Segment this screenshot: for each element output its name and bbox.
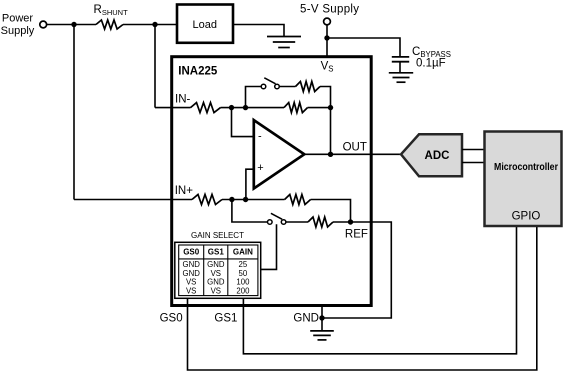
svg-text:GAIN: GAIN [233, 247, 253, 256]
node GND [319, 315, 324, 320]
svg-text:200: 200 [236, 286, 250, 295]
wire GS0 to GPIO [188, 226, 537, 370]
svg-text:ADC: ADC [425, 150, 450, 162]
svg-text:Load: Load [193, 19, 217, 31]
svg-text:Supply: Supply [1, 25, 35, 37]
switch S1 [261, 84, 266, 89]
node IN+ b [243, 197, 248, 202]
wire feedback to output node [330, 108, 332, 155]
node IN- b [243, 105, 248, 110]
IC INA225 box [172, 57, 372, 306]
svg-text:GND: GND [207, 278, 225, 287]
svg-text:VS: VS [186, 286, 196, 295]
wire load to ground [233, 25, 284, 37]
svg-text:GND: GND [183, 260, 201, 269]
svg-text:GS0: GS0 [183, 247, 200, 256]
wire output [304, 153, 401, 155]
svg-text:OUT: OUT [343, 141, 367, 153]
svg-text:GS1: GS1 [208, 247, 225, 256]
wire IN- rail [155, 107, 191, 109]
op-amp U1 [254, 120, 304, 188]
wire node B down to IN- rail [154, 25, 156, 108]
node IN+ a [229, 197, 234, 202]
svg-text:GND: GND [183, 269, 201, 278]
svg-text:Power: Power [2, 12, 34, 24]
resistor RSHUNT [96, 20, 123, 29]
wire ref switch branch [232, 200, 268, 223]
capacitor CBYPASS [392, 56, 409, 58]
resistor ref lower [308, 217, 333, 227]
resistor ref upper [285, 195, 311, 205]
terminal: 5-V supply [324, 18, 331, 25]
wire IN+ rail [74, 199, 192, 201]
resistor feedback lower [284, 103, 308, 113]
svg-text:Microcontroller: Microcontroller [494, 162, 558, 173]
resistor input IN- [191, 103, 221, 113]
svg-text:GS0: GS0 [160, 312, 183, 324]
wire VS pin [326, 25, 328, 57]
svg-text:-: - [258, 131, 262, 143]
svg-text:IN-: IN- [175, 94, 191, 106]
ADC block [401, 134, 462, 176]
wire node A down to IN+ rail [73, 25, 75, 200]
wire switch to feedback resistor [279, 86, 295, 88]
svg-text:IN+: IN+ [175, 185, 194, 197]
ground (bypass cap) [389, 72, 413, 74]
svg-text:REF: REF [345, 229, 368, 241]
ground (load) [267, 36, 301, 38]
resistor feedback upper [296, 82, 321, 92]
node VS junction [324, 35, 329, 40]
svg-text:VS: VS [211, 269, 221, 278]
svg-text:GS1: GS1 [214, 312, 237, 324]
node feedback junction [328, 105, 333, 110]
svg-text:INA225: INA225 [178, 66, 218, 78]
node B (shunt/load junction) [152, 22, 157, 27]
wire GND pin [321, 306, 323, 319]
node REF [348, 219, 353, 224]
wire power supply rail [47, 24, 96, 26]
svg-text:GPIO: GPIO [512, 211, 541, 223]
svg-text:GND: GND [207, 260, 225, 269]
svg-text:VS: VS [321, 61, 334, 74]
node A (supply junction) [71, 22, 76, 27]
node IN- a [229, 105, 234, 110]
svg-text:100: 100 [236, 278, 250, 287]
switch S2 [268, 220, 273, 225]
wire inverting input [232, 108, 254, 137]
load block [177, 5, 233, 43]
wire switch control from gain select [260, 224, 277, 269]
svg-text:+: + [257, 162, 263, 174]
svg-text:GAIN SELECT: GAIN SELECT [191, 231, 244, 240]
svg-text:50: 50 [239, 269, 248, 278]
wire switch to ref resistor [286, 221, 308, 223]
svg-text:25: 25 [239, 260, 248, 269]
svg-text:VS: VS [211, 286, 221, 295]
wire switch branch up [246, 87, 262, 108]
svg-text:5-V Supply: 5-V Supply [300, 3, 359, 15]
svg-text:VS: VS [186, 278, 196, 287]
svg-text:GND: GND [293, 312, 319, 324]
ground (GND pin) [321, 318, 323, 331]
resistor input IN+ [192, 195, 222, 205]
microcontroller block [485, 132, 562, 227]
svg-text:RSHUNT: RSHUNT [94, 4, 129, 17]
node output [328, 152, 333, 157]
wire to bypass cap [327, 38, 400, 57]
wire REF to GND [322, 222, 391, 318]
svg-text:0.1µF: 0.1µF [416, 58, 446, 70]
terminal: power supply [40, 21, 47, 28]
wire non-inverting input [246, 169, 254, 199]
wire GS1 to GPIO [243, 226, 516, 354]
wire ADC to microcontroller (2) [462, 149, 485, 151]
